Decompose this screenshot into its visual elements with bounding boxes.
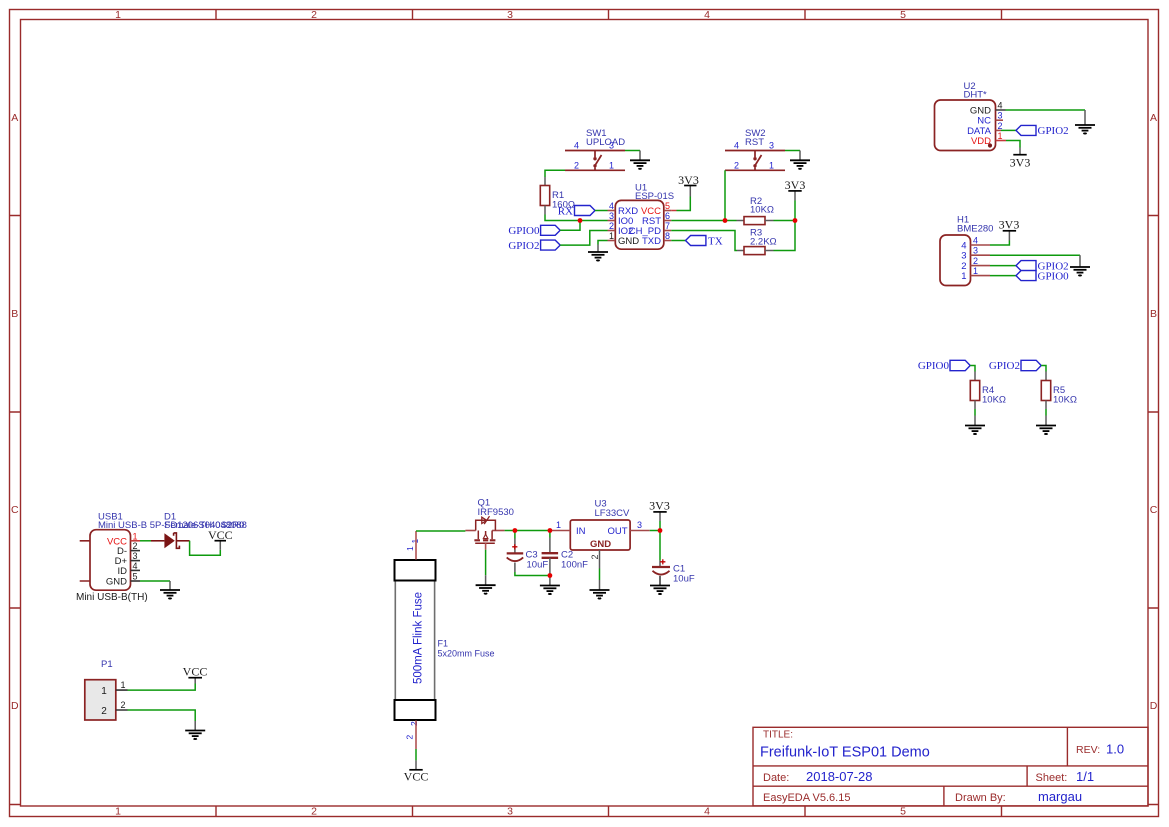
- svg-text:DHT*: DHT*: [964, 90, 988, 101]
- svg-text:1: 1: [405, 546, 415, 551]
- svg-text:2: 2: [133, 541, 138, 551]
- wire SW2 pin2 down to RST net: [724, 170, 726, 220]
- svg-text:3: 3: [637, 520, 642, 530]
- svg-text:2: 2: [973, 256, 978, 266]
- power VCC below F1: [409, 769, 422, 771]
- svg-text:1: 1: [101, 686, 107, 697]
- U1 pin names: [618, 206, 639, 247]
- resistor R3: [737, 250, 744, 252]
- transistor Q1 IRF9530: [465, 498, 514, 544]
- power 3V3 at R2: [794, 191, 796, 201]
- U1 pins left stubs: [608, 211, 672, 241]
- wire D1 to VCC: [190, 541, 221, 556]
- USB1 pin stubs: [131, 541, 141, 581]
- svg-text:10KΩ: 10KΩ: [982, 395, 1006, 406]
- svg-text:OUT: OUT: [608, 526, 628, 537]
- svg-text:3V3: 3V3: [785, 178, 806, 192]
- svg-text:10KΩ: 10KΩ: [750, 205, 774, 216]
- svg-text:IN: IN: [576, 526, 586, 537]
- power 3V3 at U3 OUT: [659, 521, 661, 531]
- svg-text:C: C: [11, 504, 19, 516]
- svg-text:Drawn By:: Drawn By:: [955, 792, 1006, 804]
- svg-text:4: 4: [574, 141, 579, 151]
- net flag GPIO2 pulldown: [1021, 360, 1041, 370]
- svg-text:1: 1: [769, 160, 774, 170]
- wire P1 pin2 to ground: [128, 710, 196, 721]
- svg-text:1: 1: [121, 680, 126, 690]
- node junction C2 U3 IN: [548, 528, 553, 533]
- H1 pin numbers outside: [973, 236, 978, 277]
- svg-text:4: 4: [998, 101, 1003, 111]
- svg-text:1: 1: [973, 266, 978, 276]
- connector H1 BME280 body: [940, 235, 971, 286]
- svg-text:3: 3: [609, 141, 614, 151]
- svg-text:4: 4: [734, 141, 739, 151]
- power VCC at P1: [188, 677, 202, 679]
- svg-text:2.2KΩ: 2.2KΩ: [750, 237, 777, 248]
- title block: [753, 727, 1148, 806]
- svg-text:VCC: VCC: [404, 769, 429, 783]
- net flag GPIO0: [541, 225, 561, 235]
- ground at Q1: [476, 585, 496, 594]
- svg-text:2: 2: [311, 806, 317, 818]
- ground at R5: [1036, 426, 1056, 435]
- wire U1 GND to ground: [598, 241, 608, 245]
- sensor U2 DHT* body: [935, 100, 996, 151]
- wire RX to RXD: [595, 210, 608, 212]
- svg-text:GND: GND: [106, 577, 127, 588]
- svg-text:VCC: VCC: [183, 665, 208, 679]
- svg-text:3: 3: [961, 251, 966, 262]
- svg-text:2: 2: [405, 735, 415, 740]
- svg-text:2: 2: [574, 160, 579, 170]
- wire F1 to Q1: [416, 530, 465, 532]
- svg-text:Date:: Date:: [763, 772, 789, 784]
- svg-text:P1: P1: [101, 659, 113, 670]
- wire H1 pin3 to ground: [990, 254, 1080, 256]
- Q1 arrow: [483, 534, 488, 538]
- svg-text:GND: GND: [590, 539, 611, 550]
- svg-text:1: 1: [556, 520, 561, 530]
- svg-text:4: 4: [973, 236, 978, 246]
- switch SW1 UPLOAD: [565, 128, 625, 170]
- ground at U3: [590, 590, 610, 599]
- wire GPIO0 to R4: [970, 366, 975, 372]
- wire GPIO2 to IO2: [560, 231, 607, 246]
- U2 pin names: [967, 106, 992, 148]
- svg-text:EasyEDA V5.6.15: EasyEDA V5.6.15: [763, 792, 850, 804]
- node junction R2 3V3: [793, 218, 798, 223]
- svg-text:7: 7: [665, 221, 670, 231]
- svg-text:6: 6: [665, 211, 670, 221]
- svg-text:GPIO2: GPIO2: [508, 240, 539, 252]
- op-amp U1 ESP-01S body: [615, 200, 664, 249]
- connector USB1 Mini USB-B body: [90, 530, 131, 591]
- svg-text:A: A: [1150, 112, 1157, 124]
- ground at R4: [965, 426, 985, 435]
- wire GPIO2 to R5: [1041, 366, 1046, 372]
- wire Q1 drain to U3 IN: [505, 530, 552, 532]
- power VCC at D1: [215, 540, 227, 542]
- svg-text:margau: margau: [1038, 789, 1082, 804]
- net flag GPIO2 at U2: [1016, 125, 1036, 135]
- ground at C2: [540, 586, 560, 595]
- net flag GPIO0 pulldown: [950, 360, 970, 370]
- node junction C3 C2 bottom: [548, 573, 553, 578]
- ground at P1: [185, 731, 205, 740]
- H1 pin stubs: [971, 245, 991, 276]
- svg-text:500mA Flink Fuse: 500mA Flink Fuse: [413, 592, 425, 684]
- svg-text:5: 5: [900, 806, 906, 818]
- wire F1 pin2 to VCC: [415, 721, 417, 750]
- ground at U2: [1075, 125, 1095, 134]
- svg-text:TX: TX: [708, 235, 723, 247]
- wire USB1 GND to ground: [140, 580, 170, 582]
- net flag TX: [686, 236, 706, 246]
- svg-text:RST: RST: [745, 137, 764, 148]
- capacitor C2 100nF: [549, 531, 551, 538]
- svg-text:2: 2: [311, 9, 317, 21]
- net flag RX: [575, 206, 596, 216]
- wire H1 pin1 to GPIO0: [990, 275, 1016, 277]
- wire R4 to ground: [974, 401, 976, 410]
- svg-text:10KΩ: 10KΩ: [1053, 395, 1077, 406]
- svg-text:3V3: 3V3: [999, 218, 1020, 232]
- wire R5 to ground: [1045, 401, 1047, 410]
- svg-text:A: A: [11, 112, 18, 124]
- svg-text:GPIO0: GPIO0: [918, 360, 950, 372]
- svg-text:1: 1: [961, 271, 966, 282]
- svg-text:ID: ID: [118, 566, 128, 577]
- ground at SW2: [790, 160, 810, 169]
- svg-text:3: 3: [507, 9, 513, 21]
- wire H1 pin2 to GPIO2: [990, 265, 1016, 267]
- USB1 shield stubs: [80, 541, 90, 581]
- svg-text:5x20mm Fuse: 5x20mm Fuse: [438, 649, 495, 659]
- svg-text:5: 5: [900, 9, 906, 21]
- svg-text:2: 2: [101, 706, 107, 717]
- ground at C1: [650, 586, 670, 595]
- ground at SW1: [630, 160, 650, 169]
- svg-text:2: 2: [409, 721, 419, 726]
- ground at U1: [588, 252, 608, 261]
- resistor R4: [970, 381, 979, 401]
- ground at USB1: [160, 590, 180, 599]
- svg-text:B: B: [11, 308, 18, 320]
- svg-text:C: C: [1150, 504, 1158, 516]
- svg-text:3: 3: [998, 111, 1003, 121]
- svg-text:1: 1: [998, 131, 1003, 141]
- svg-text:2: 2: [609, 221, 614, 231]
- wire U2 GND to ground: [1006, 109, 1086, 111]
- power 3V3 at U1 VCC: [671, 210, 676, 212]
- svg-text:5: 5: [133, 572, 138, 582]
- U3 pin2 GND: [599, 550, 601, 569]
- svg-text:LF33CV: LF33CV: [595, 508, 631, 519]
- Q1 body diode: [482, 517, 487, 523]
- frame column/row ticks: [216, 10, 1002, 20]
- svg-text:1: 1: [609, 160, 614, 170]
- svg-text:3: 3: [507, 806, 513, 818]
- svg-text:1: 1: [115, 9, 121, 21]
- svg-text:2: 2: [998, 121, 1003, 131]
- svg-text:3: 3: [973, 246, 978, 256]
- svg-text:8: 8: [665, 231, 670, 241]
- svg-text:3V3: 3V3: [649, 499, 670, 513]
- svg-text:1: 1: [410, 539, 420, 544]
- svg-text:2: 2: [590, 554, 600, 559]
- wire R1 bottom to IO0 row: [544, 206, 546, 215]
- svg-text:2: 2: [121, 700, 126, 710]
- svg-text:4: 4: [609, 201, 614, 211]
- svg-text:GPIO2: GPIO2: [1038, 125, 1069, 137]
- svg-text:2018-07-28: 2018-07-28: [806, 769, 873, 784]
- svg-text:1: 1: [133, 531, 138, 541]
- connector P1 body: [85, 680, 116, 720]
- U3 pin3: [630, 530, 650, 532]
- svg-text:D: D: [11, 700, 19, 712]
- svg-text:F1: F1: [438, 639, 449, 649]
- wire SW2 pin3 to ground: [785, 150, 800, 152]
- regulator U3 LF33CV body: [570, 520, 630, 550]
- node junction U3 OUT 3V3 C1: [658, 528, 663, 533]
- wire U1 RST to SW2/R2: [671, 220, 736, 222]
- svg-text:5: 5: [665, 201, 670, 211]
- wire SW1 pin3 to ground: [625, 150, 640, 152]
- wire Q1 gate to ground: [485, 543, 487, 550]
- svg-text:REV:: REV:: [1076, 744, 1100, 756]
- svg-text:IRF9530: IRF9530: [478, 507, 514, 518]
- wire F1 pin1: [415, 531, 417, 560]
- svg-text:4: 4: [133, 561, 138, 571]
- svg-text:GPIO2: GPIO2: [989, 360, 1020, 372]
- svg-text:B: B: [1150, 308, 1157, 320]
- svg-text:1/1: 1/1: [1076, 769, 1094, 784]
- net flag GPIO0 at H1: [1016, 271, 1036, 281]
- svg-text:100nF: 100nF: [561, 560, 588, 571]
- switch SW2 RST: [725, 128, 785, 170]
- USB1 pin numbers: [133, 531, 138, 581]
- net flag GPIO2 at H1: [1016, 261, 1036, 271]
- svg-text:Mini USB-B(TH): Mini USB-B(TH): [76, 592, 148, 603]
- svg-text:4: 4: [704, 806, 710, 818]
- Q1 channel bars: [474, 539, 495, 541]
- power 3V3 at U2 VDD: [1006, 141, 1020, 148]
- svg-text:1: 1: [115, 806, 121, 818]
- node junction Q1 drain C3: [513, 528, 518, 533]
- U3 pin1: [552, 530, 570, 532]
- svg-text:VCC: VCC: [208, 528, 233, 542]
- svg-text:Sheet:: Sheet:: [1036, 772, 1068, 784]
- U2 pin stubs: [996, 110, 1007, 141]
- wire U1 CH_PD to R3: [671, 231, 737, 251]
- capacitor C3 10uF: [514, 531, 516, 539]
- wire P1 pin1 to VCC: [128, 684, 196, 691]
- power 3V3 at H1 pin4: [990, 241, 1009, 246]
- svg-text:TITLE:: TITLE:: [763, 730, 793, 741]
- fuse F1: [395, 539, 495, 740]
- USB1 pin names: [106, 536, 128, 587]
- svg-text:GND: GND: [618, 236, 639, 247]
- svg-text:D: D: [1150, 700, 1158, 712]
- net flag GPIO2: [541, 240, 561, 250]
- svg-text:3: 3: [769, 141, 774, 151]
- svg-text:1.0: 1.0: [1106, 742, 1124, 757]
- svg-text:10uF: 10uF: [527, 560, 549, 571]
- svg-text:1: 1: [609, 231, 614, 241]
- svg-text:3: 3: [609, 211, 614, 221]
- svg-text:10uF: 10uF: [673, 574, 695, 585]
- svg-text:GPIO0: GPIO0: [1038, 270, 1070, 282]
- wire GPIO0 to IO0 junction: [560, 221, 580, 231]
- svg-text:Freifunk-IoT ESP01 Demo: Freifunk-IoT ESP01 Demo: [760, 745, 930, 761]
- resistor R5: [1041, 381, 1050, 401]
- wire U1 TXD to TX flag: [671, 240, 685, 242]
- svg-text:BME280: BME280: [957, 224, 993, 235]
- svg-text:3: 3: [133, 551, 138, 561]
- svg-text:TXD: TXD: [642, 236, 661, 247]
- svg-text:UPLOAD: UPLOAD: [586, 137, 625, 148]
- svg-text:RX: RX: [558, 205, 573, 217]
- svg-text:2: 2: [734, 160, 739, 170]
- node junction RST/SW2: [723, 218, 728, 223]
- svg-text:3V3: 3V3: [678, 173, 699, 187]
- H1 pin numbers inside: [961, 241, 966, 283]
- svg-text:4: 4: [704, 9, 710, 21]
- capacitor C1 10uF: [659, 531, 661, 561]
- svg-text:3V3: 3V3: [1010, 156, 1031, 170]
- node junction IO0: [578, 218, 583, 223]
- wire SW1 pin2 to R1 top: [545, 170, 565, 177]
- svg-text:GPIO0: GPIO0: [508, 225, 540, 237]
- wire U2 DATA to GPIO2: [1001, 129, 1016, 131]
- U2 pin numbers: [998, 101, 1003, 142]
- resistor R2: [737, 220, 745, 222]
- resistor R1: [540, 186, 549, 206]
- P1 pin stubs: [116, 690, 128, 710]
- U1 pin numbers: [609, 201, 614, 241]
- ground at H1: [1070, 267, 1090, 276]
